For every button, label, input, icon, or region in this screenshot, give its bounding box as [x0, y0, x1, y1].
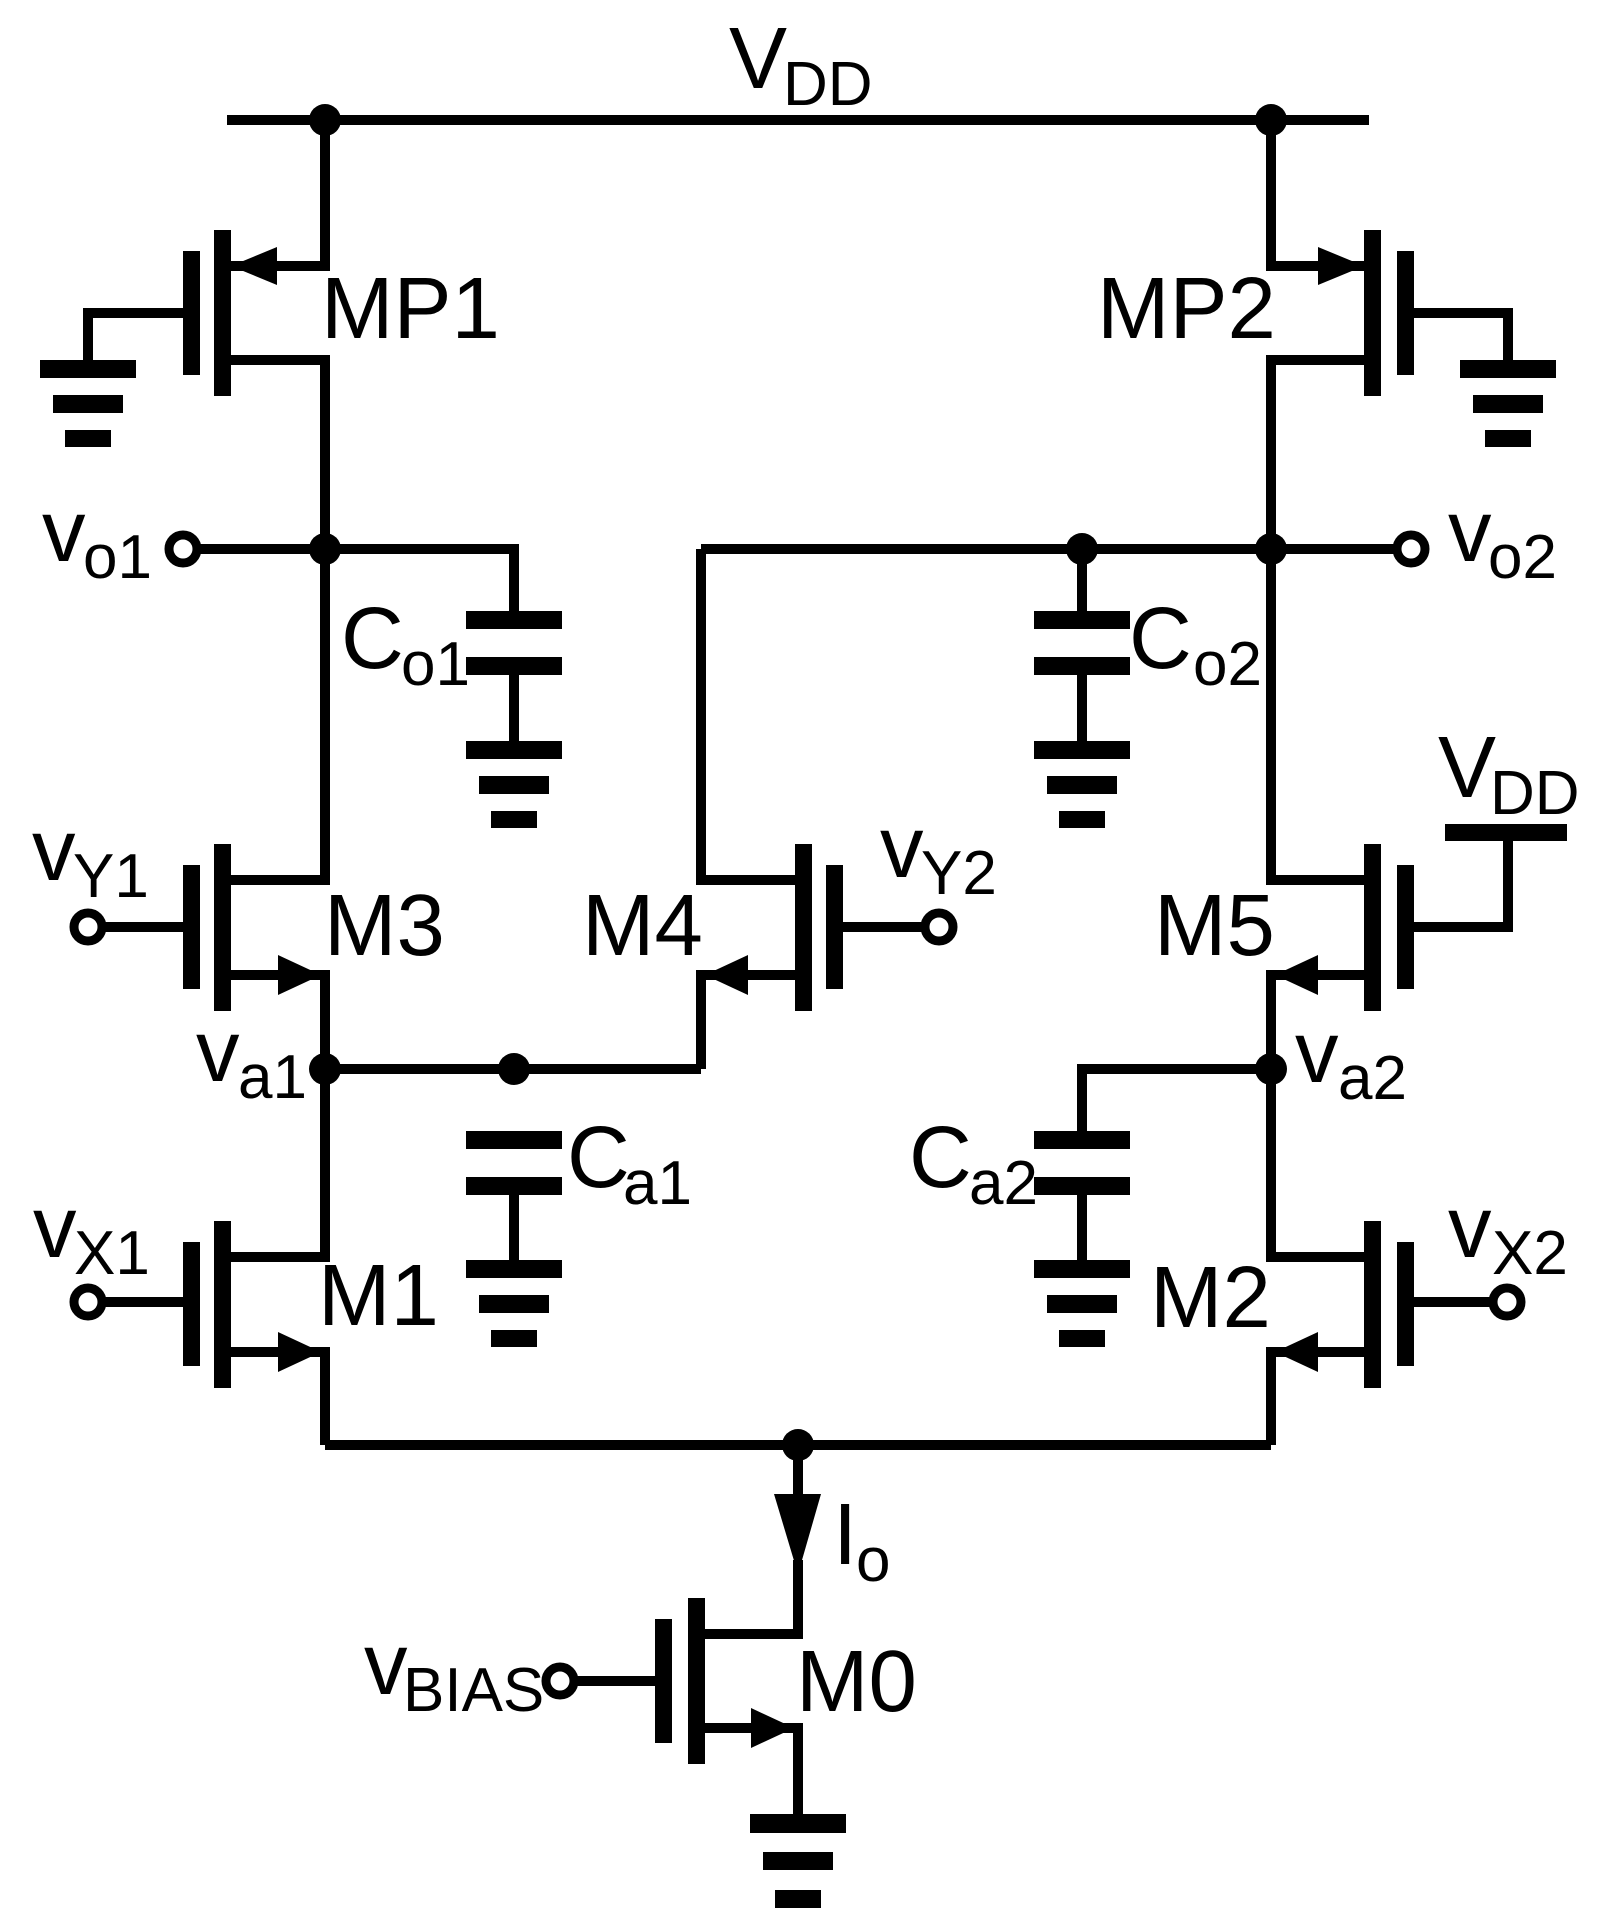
svg-text:v: v: [364, 1616, 408, 1713]
wire va2 to Ca2: [1082, 1069, 1271, 1131]
junction node Ca1 tap: [498, 1053, 530, 1085]
svg-text:C: C: [909, 1109, 972, 1206]
svg-text:M4: M4: [582, 877, 703, 974]
capacitor Co2: [1034, 611, 1130, 629]
terminal vX1: [74, 1288, 102, 1316]
wire M5 gate to VDD bar: [1414, 841, 1508, 927]
ground at M0 source: [750, 1814, 846, 1833]
junction node va1: [309, 1053, 341, 1085]
wire vX2 terminal stub: [1414, 1297, 1507, 1307]
wire M1 drain to node va1: [231, 1069, 325, 1257]
wire M3 drain to node vo1: [231, 549, 325, 880]
current arrow Io: [774, 1494, 821, 1574]
transistor M5: [1397, 865, 1414, 989]
svg-text:v: v: [32, 802, 76, 899]
ground below Co1: [466, 741, 562, 759]
ground below Ca1: [466, 1260, 562, 1278]
wire vo1 to Co1: [325, 549, 514, 611]
svg-text:v: v: [1448, 1179, 1492, 1276]
svg-text:V: V: [1438, 719, 1496, 816]
svg-text:M0: M0: [796, 1633, 917, 1730]
wire M5 source to node va2: [1271, 975, 1364, 1069]
ground at MP1 gate: [40, 360, 136, 378]
svg-text:o: o: [856, 1526, 890, 1595]
transistor M3: [183, 865, 200, 989]
svg-text:a1: a1: [238, 1043, 307, 1112]
svg-text:v: v: [880, 799, 924, 896]
junction node vo2: [1255, 533, 1287, 565]
wire vY1 terminal stub: [88, 922, 183, 932]
svg-text:M2: M2: [1150, 1249, 1271, 1346]
ground below Ca2: [1034, 1260, 1130, 1278]
junction node vo1: [309, 533, 341, 565]
wire tail rail: [325, 1440, 1271, 1450]
svg-text:MP1: MP1: [321, 260, 500, 357]
power VDD bar at M5 gate: [1445, 824, 1567, 841]
svg-text:DD: DD: [1490, 759, 1580, 828]
wire vX1 terminal stub: [88, 1297, 183, 1307]
svg-text:o2: o2: [1488, 523, 1557, 592]
svg-text:Y2: Y2: [921, 839, 997, 908]
junction node VDD left: [309, 104, 341, 136]
svg-text:M3: M3: [324, 877, 445, 974]
svg-text:a2: a2: [1338, 1044, 1407, 1113]
svg-text:V: V: [729, 10, 787, 107]
svg-text:v: v: [1448, 483, 1492, 580]
wire M3 source to node va1: [231, 975, 325, 1069]
wire Co2 stem tap: [1077, 549, 1087, 611]
transistor MP1: [183, 251, 200, 375]
junction node VDD right: [1255, 104, 1287, 136]
svg-text:C: C: [341, 590, 404, 687]
wire M4 drain to vo2 net: [701, 549, 795, 880]
transistor M4: [826, 865, 843, 989]
svg-text:M1: M1: [318, 1247, 439, 1344]
wire MP1 source to VDD: [231, 120, 325, 266]
svg-text:M5: M5: [1154, 877, 1275, 974]
capacitor Ca2: [1034, 1131, 1130, 1149]
wire M0 source to ground: [705, 1728, 798, 1814]
wire M5 drain to node vo2: [1271, 549, 1364, 880]
svg-text:a1: a1: [623, 1149, 692, 1218]
transistor M0: [655, 1619, 672, 1743]
capacitor Co1: [466, 611, 562, 629]
svg-text:o1: o1: [401, 630, 470, 699]
wire va1 rail: [325, 1064, 701, 1074]
ground at MP2 gate: [1460, 360, 1556, 378]
svg-text:o1: o1: [83, 523, 152, 592]
svg-text:a2: a2: [969, 1149, 1038, 1218]
terminal vY2: [925, 913, 953, 941]
wire M1 source to tail rail: [231, 1352, 325, 1445]
svg-text:MP2: MP2: [1097, 260, 1276, 357]
svg-text:I: I: [833, 1486, 857, 1583]
terminal vY1: [74, 913, 102, 941]
transistor M1: [183, 1242, 200, 1366]
svg-text:v: v: [1295, 1004, 1339, 1101]
ground below Co2: [1034, 741, 1130, 759]
svg-text:BIAS: BIAS: [403, 1656, 544, 1725]
wire VDD rail: [227, 115, 1369, 125]
terminal vBIAS: [546, 1667, 574, 1695]
wire M4 source to va1 rail: [701, 975, 795, 1069]
svg-text:X1: X1: [74, 1219, 150, 1288]
wire vBIAS terminal stub: [560, 1676, 655, 1686]
svg-text:v: v: [42, 483, 86, 580]
terminal vX2: [1493, 1288, 1521, 1316]
wire MP2 drain to node vo2: [1271, 360, 1364, 549]
terminal vo2: [1397, 535, 1425, 563]
wire vo1 terminal stub: [183, 544, 325, 554]
wire MP1 drain to node vo1: [231, 360, 325, 549]
svg-text:DD: DD: [783, 50, 873, 119]
junction node va2: [1255, 1053, 1287, 1085]
wire MP2 gate to ground: [1414, 313, 1508, 360]
svg-text:v: v: [33, 1179, 77, 1276]
wire vo2 top rail: [701, 544, 1411, 554]
transistor M2: [1397, 1242, 1414, 1366]
svg-text:X2: X2: [1492, 1219, 1568, 1288]
terminal vo1: [169, 535, 197, 563]
svg-text:v: v: [196, 1003, 240, 1100]
wire Io stem: [705, 1445, 798, 1634]
wire M2 drain to node va2: [1271, 1069, 1364, 1257]
junction node Co2 tap: [1066, 533, 1098, 565]
wire vY2 terminal stub: [843, 922, 939, 932]
wire MP2 source to VDD: [1271, 120, 1364, 266]
svg-text:C: C: [1129, 590, 1192, 687]
svg-text:C: C: [567, 1109, 630, 1206]
wire M2 source to tail rail: [1271, 1352, 1364, 1445]
junction node tail: [782, 1429, 814, 1461]
transistor MP2: [1397, 251, 1414, 375]
svg-text:Y1: Y1: [73, 842, 149, 911]
wire MP1 gate to ground: [88, 313, 183, 360]
svg-text:o2: o2: [1193, 630, 1262, 699]
capacitor Ca1: [466, 1131, 562, 1149]
